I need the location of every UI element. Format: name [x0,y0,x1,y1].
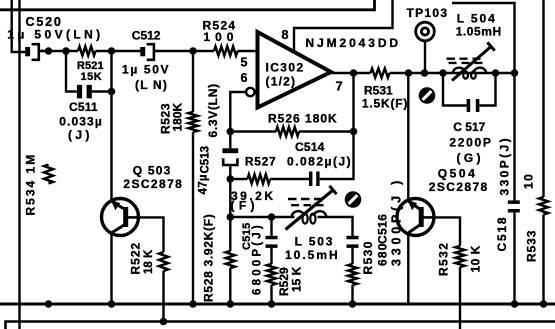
op-amp pin 6 inverting input circle [246,88,254,96]
svg-text:R532: R532 [436,242,450,276]
resistor R531 1.5K F [371,69,390,78]
svg-text:100: 100 [203,30,238,44]
capacitor C511 (0.033u J) [77,85,82,99]
wire C511 loop right leg and Q503 emitter line [92,51,112,201]
junction output / L504 left [439,69,447,77]
svg-text:0.082µ(J): 0.082µ(J) [287,155,352,169]
svg-text:C516: C516 [376,214,390,244]
svg-text:TP103: TP103 [407,6,449,20]
resistor R527 39.2K F [248,175,271,184]
resistor R530 680 [348,264,357,285]
svg-text:( G ): ( G ) [457,151,481,165]
wire C511 loop left leg [66,51,77,92]
svg-text:18 K: 18 K [143,249,155,274]
svg-text:330P(J): 330P(J) [498,136,512,196]
wire main input line (C520 to op-amp pin 5) [41,50,256,52]
wire output tie vertical (output to R526/C514 node) [352,73,354,132]
svg-text:2SC2878: 2SC2878 [429,180,489,194]
test point TP103 [416,22,435,41]
junction pin6 node / R526 [227,128,235,136]
svg-text:47µ: 47µ [198,174,210,194]
junction R534 bottom rail [45,300,53,308]
svg-text:6: 6 [241,71,248,85]
op-amp U1 IC302 triangle [258,32,332,108]
junction output / TP103 [421,69,429,77]
resistor R524 100 [214,47,238,56]
inductor L504 core dashes [447,58,481,60]
svg-text:C 517: C 517 [453,120,485,134]
junction R521/C511 right on main line [108,47,116,55]
svg-text:R533: R533 [525,230,539,262]
svg-text:(1/2): (1/2) [266,75,297,89]
svg-text:1µ 50V: 1µ 50V [122,63,170,77]
junction C520/R534 on main line [45,47,53,55]
resistor R522 18K [159,252,168,271]
svg-text:IC302: IC302 [266,61,305,75]
svg-text:L 503: L 503 [295,235,335,249]
resistor R521 15K [78,47,96,56]
wire C513 column [229,132,231,218]
transistor Q504 2SC2878 [397,199,434,236]
junction output / Q504 emitter [405,69,413,77]
svg-text:680: 680 [376,242,390,266]
svg-text:1.05mH: 1.05mH [456,25,502,39]
svg-text:( F ): ( F ) [231,199,256,213]
junction mid line left [227,213,235,221]
wire Q503 collector to bottom rail [110,233,112,304]
capacitor C515 (6800P J) [266,236,278,240]
wire C518 column from top corner [452,3,515,304]
svg-text:15K: 15K [81,71,103,83]
svg-text:5: 5 [241,56,248,70]
wire R532 bottom to bottom edge [459,267,461,329]
junction Q503 collector bottom rail [108,300,116,308]
wire C516/R530 branch lower part [351,248,353,304]
svg-text:(L N): (L N) [135,78,168,92]
svg-text:10 K: 10 K [469,245,483,272]
wire R528 branch [229,217,231,304]
junction R523 on main line [189,47,197,55]
svg-text:C518: C518 [495,216,509,252]
junction R522 lower rail [160,318,168,326]
junction C513 bottom / R527 [227,175,235,183]
junction R526/C514 to output tie [350,128,358,136]
resistor R529 15K [267,264,276,285]
resistor R532 10K [456,246,465,267]
junction R529 bottom rail [268,300,276,308]
wire TP103 lead [424,41,426,73]
junction C518 bottom rail [511,300,519,308]
resistor R526 180K [276,127,299,136]
svg-text:1.5K(F): 1.5K(F) [362,97,408,111]
wire bottom rail 2 [6,322,555,329]
wire left vertical branch to C520 [12,0,26,52]
wire Q504 emitter line [407,73,409,201]
svg-text:Q 503: Q 503 [133,164,172,178]
svg-text:NJM2043DD: NJM2043DD [306,36,401,50]
wire long left vertical (top edge to bottom edge) [18,0,20,329]
svg-text:C513: C513 [200,146,212,174]
capacitor C516 (3300P J) [347,236,359,240]
svg-text:C511: C511 [69,100,98,114]
capacitor C520 (1u 50V LN) [25,47,30,56]
capacitor C514 (0.082u J) [309,172,312,187]
resistor R528 3.92K F [226,251,235,268]
svg-text:( J ): ( J ) [68,128,89,142]
svg-text:1µ 50V(LN): 1µ 50V(LN) [7,28,103,42]
wire R527/C514 feedback line [230,132,353,180]
svg-text:Q504: Q504 [438,167,478,181]
inductor L504 adjust arrow [452,47,491,81]
capacitor C512 (1u 50V LN) [140,47,145,56]
svg-text:15 K: 15 K [290,266,304,292]
capacitor C518 (330P J) [508,200,520,204]
svg-text:R522: R522 [129,242,143,275]
svg-text:R528 3.92K(F): R528 3.92K(F) [202,214,216,302]
screw adjustment mark (L503) [345,191,362,208]
capacitor C517 (2200P G) [467,99,471,112]
svg-text:C514: C514 [295,140,325,154]
svg-text:L 504: L 504 [457,12,497,26]
svg-text:10: 10 [521,173,535,189]
transistor Q503 2SC2878 [102,199,139,236]
inductor L503 core dashes [288,198,323,200]
wire top rail (to +B, exits top) [0,0,375,10]
junction output end / C518 column [511,69,519,77]
svg-text:7: 7 [336,79,343,94]
svg-text:R526 180K: R526 180K [268,112,338,126]
junction output / feedback tie [350,69,358,77]
wire op-amp output line [332,72,515,74]
svg-text:R534 1M: R534 1M [24,153,38,216]
inductor L503 adjust arrow [286,190,334,230]
wire R522 bottom to lower rail [162,271,164,322]
svg-text:6.3V(LN): 6.3V(LN) [206,83,220,137]
svg-text:8: 8 [282,28,289,42]
wire R533 column [542,0,544,304]
svg-text:6800P(J): 6800P(J) [251,222,263,295]
svg-text:3300P(J ): 3300P(J ) [390,177,404,266]
wire bottom rail 1 [0,303,555,306]
junction R528 bottom rail [227,300,235,308]
svg-text:C512: C512 [132,29,161,43]
junction L504 right [492,69,500,77]
wire feedback top (pin6 node to R526 to output tie) [230,130,353,132]
wire mid line (C513 node to L503 to C516) [230,217,352,236]
junction C515 branch / L503 left [268,213,276,221]
wire Q504 base lead to R532 [434,217,460,246]
capacitor C513 (47u) [222,148,238,153]
wire op-amp pin 6 lead [230,92,246,132]
svg-text:R527: R527 [245,155,277,169]
inductor L504 1.05mH coil [453,68,487,74]
inductor L503 10.5mH coil [292,211,327,217]
svg-text:R530: R530 [361,240,375,274]
wire L504/C517 loop [443,73,496,106]
wire C515/R529 branch [270,217,272,304]
svg-text:0.033µ: 0.033µ [59,115,103,129]
junction R521/C511 left on main line [62,47,70,55]
svg-text:2200P: 2200P [449,136,492,150]
junction R530 bottom rail [349,300,357,308]
svg-text:2SC2878: 2SC2878 [123,177,183,191]
svg-text:180K: 180K [171,102,185,131]
wire R523/R528 column to bottom rail [192,51,194,304]
wire Q504 collector to bottom rail [408,233,460,304]
svg-text:R531: R531 [364,84,393,98]
svg-text:10.5mH: 10.5mH [285,248,340,262]
wire op-amp supply net (pin 8 to top edge) [294,0,393,53]
resistor R523 180K [189,112,198,132]
wire Q503 base lead to R522 [139,217,164,252]
resistor R534 1M [44,165,53,184]
junction C511 right / Q503 emitter [108,88,116,96]
resistor R533 10 [539,197,548,215]
junction R533 bottom rail [540,300,548,308]
screw adjustment mark (L504) [419,87,436,104]
junction R523 column bottom rail [189,300,197,308]
